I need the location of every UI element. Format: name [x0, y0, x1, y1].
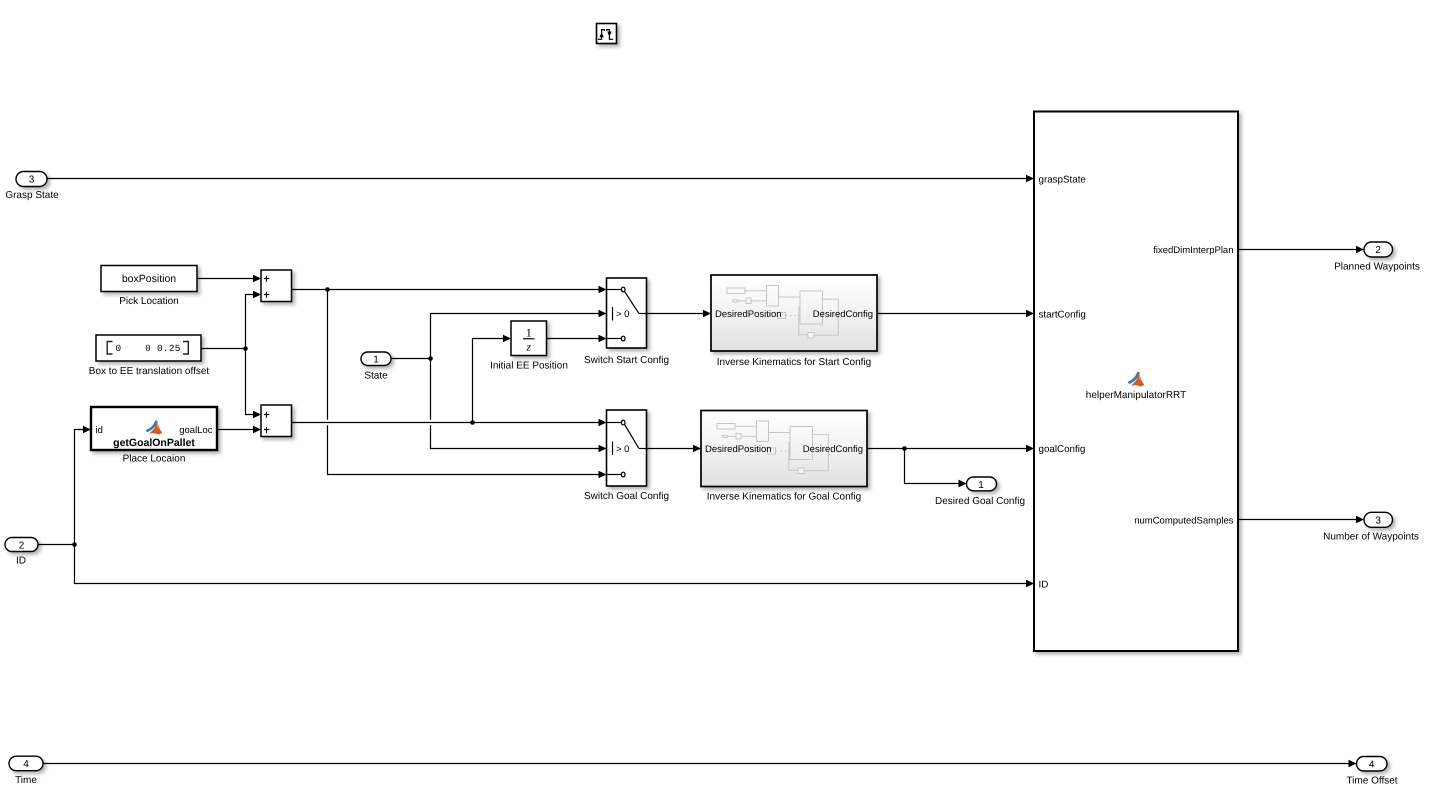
wire boxPosition to sum1: [197, 275, 261, 283]
svg-text:DesiredPosition: DesiredPosition: [715, 309, 782, 320]
inport 1 State: [361, 352, 391, 382]
svg-text:2: 2: [1375, 245, 1381, 256]
svg-text:helperManipulatorRRT: helperManipulatorRRT: [1086, 390, 1186, 401]
svg-text:Box to EE translation offset: Box to EE translation offset: [89, 366, 210, 377]
wire branch sum2 up to Initial EE Position: [473, 335, 512, 423]
svg-text:Number of Waypoints: Number of Waypoints: [1323, 532, 1419, 543]
svg-text:DesiredConfig: DesiredConfig: [813, 309, 873, 320]
wire ID down to big block: [75, 545, 1035, 588]
svg-text:getGoalOnPallet: getGoalOnPallet: [113, 437, 195, 449]
wire IK Start out to startConfig: [877, 310, 1034, 318]
wire State to junction: [391, 358, 431, 360]
wire branch goalConfig down to outport Desired Goal Config: [905, 449, 967, 488]
wire numComputedSamples to outport 3: [1238, 516, 1364, 524]
wire constant to junction: [201, 348, 246, 350]
svg-text:Switch Start Config: Switch Start Config: [584, 355, 669, 366]
svg-text:fixedDimInterpPlan: fixedDimInterpPlan: [1153, 245, 1233, 256]
svg-text:Inverse Kinematics for Start C: Inverse Kinematics for Start Config: [717, 357, 872, 368]
wire junction down to sum2 in1: [246, 349, 262, 419]
wire ID branch up into getGoalOnPallet id: [75, 426, 92, 545]
svg-text:Inverse Kinematics for Goal Co: Inverse Kinematics for Goal Config: [707, 492, 862, 503]
svg-text:0 0 0.25: 0 0 0.25: [116, 343, 181, 354]
svg-text:Initial EE Position: Initial EE Position: [490, 360, 568, 371]
inport 4 Time: [9, 756, 43, 786]
sum block Add (top): [261, 270, 292, 302]
sum block Add1 (bottom): [261, 405, 292, 437]
svg-text:Time: Time: [15, 775, 37, 786]
wire State up to Switch Start Config in2: [431, 310, 607, 359]
wire getGoalOnPallet out to sum2 in2: [217, 426, 261, 434]
svg-text:3: 3: [1375, 515, 1381, 526]
wire fixedDimInterpPlan to outport 2: [1238, 246, 1364, 254]
svg-text:4: 4: [1369, 760, 1375, 771]
svg-text:Desired Goal Config: Desired Goal Config: [935, 496, 1025, 507]
switch block Switch Goal Config: [584, 410, 669, 502]
MATLAB function block getGoalOnPallet (Place Locaion): [91, 407, 217, 465]
wire ID to junction: [38, 544, 75, 546]
svg-text:Pick Location: Pick Location: [119, 296, 178, 307]
svg-text:id: id: [96, 425, 103, 436]
junction dot State: [428, 356, 433, 361]
svg-text:DesiredPosition: DesiredPosition: [705, 444, 772, 455]
junction dot sum1 branch: [325, 287, 330, 292]
svg-text:Switch Goal Config: Switch Goal Config: [584, 491, 669, 502]
outport 4 Time Offset: [1346, 757, 1397, 787]
outport 1 Desired Goal Config: [935, 477, 1025, 507]
svg-text:Place Locaion: Place Locaion: [123, 454, 186, 465]
wire junction up to sum1 in2: [246, 291, 262, 349]
inport 2 ID: [5, 538, 38, 567]
constant Box to EE translation offset: [89, 335, 210, 377]
svg-text:numComputedSamples: numComputedSamples: [1134, 516, 1234, 527]
junction dot sum2 branch: [470, 420, 475, 425]
svg-text:3: 3: [29, 175, 35, 186]
wire Time to Time Offset: [43, 760, 1357, 768]
trigger icon: [597, 24, 617, 44]
wire sum2 out to Switch Goal Config in1: [292, 419, 607, 427]
subsystem Inverse Kinematics for Goal Config: [701, 411, 867, 503]
junction dot constant: [243, 346, 248, 351]
subsystem Inverse Kinematics for Start Config: [711, 275, 877, 368]
svg-text:ID: ID: [16, 556, 26, 567]
constant boxPosition (Pick Location): [101, 266, 197, 308]
svg-text:goalLoc: goalLoc: [179, 425, 213, 436]
svg-text:State: State: [364, 371, 388, 382]
svg-text:ID: ID: [1039, 580, 1049, 591]
outport 3 Number of Waypoints: [1323, 512, 1419, 542]
outport 2 Planned Waypoints: [1334, 242, 1420, 273]
switch block Switch Start Config: [584, 278, 669, 366]
svg-text:> 0: > 0: [616, 444, 629, 455]
svg-text:1: 1: [373, 354, 379, 365]
svg-text:z: z: [526, 342, 532, 354]
MATLAB system block helperManipulatorRRT: [1034, 112, 1238, 652]
svg-text:Grasp State: Grasp State: [5, 190, 59, 201]
unit delay Initial EE Position: [490, 321, 568, 371]
junction dot goalConfig: [902, 446, 907, 451]
wire graspState: [47, 175, 1034, 183]
svg-text:Time Offset: Time Offset: [1346, 776, 1397, 787]
svg-text:1: 1: [526, 328, 532, 340]
wire sum1 out to Switch Start Config in1: [292, 286, 607, 294]
svg-text:graspState: graspState: [1039, 175, 1087, 186]
wire branch sum1 to Switch Goal Config in3: [328, 290, 607, 479]
svg-text:1: 1: [978, 480, 984, 491]
svg-text:Planned Waypoints: Planned Waypoints: [1334, 262, 1420, 273]
wire unit delay out to Switch Start Config in3: [547, 335, 607, 343]
svg-text:2: 2: [19, 540, 25, 551]
junction dot ID: [72, 542, 77, 547]
wire IK Goal out to goalConfig: [867, 445, 1034, 453]
svg-text:> 0: > 0: [616, 309, 629, 320]
wire State down to Switch Goal Config in2: [431, 359, 607, 453]
svg-text:goalConfig: goalConfig: [1039, 444, 1086, 455]
svg-text:startConfig: startConfig: [1039, 309, 1086, 320]
inport 3 Grasp State: [5, 172, 59, 202]
svg-text:DesiredConfig: DesiredConfig: [803, 444, 863, 455]
svg-text:boxPosition: boxPosition: [122, 273, 176, 285]
wire Switch Start Config out to IK Start: [647, 310, 712, 318]
svg-text:4: 4: [23, 759, 29, 770]
wire Switch Goal Config out to IK Goal: [647, 445, 702, 453]
